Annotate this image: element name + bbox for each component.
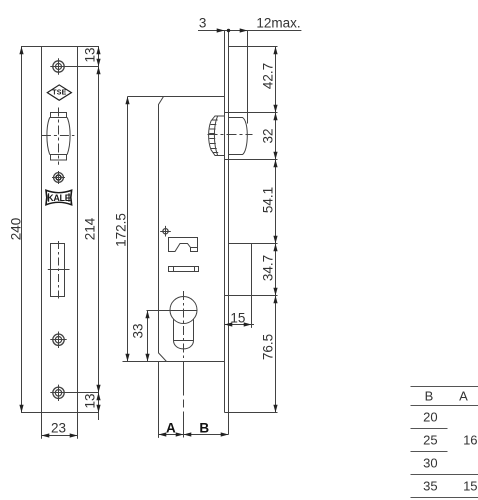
- roller knob inside body: [209, 116, 225, 156]
- table value 20: [423, 410, 437, 425]
- table value 30: [423, 456, 437, 471]
- table header A: [459, 389, 468, 404]
- TSE logo diamond: [47, 85, 71, 100]
- chain extension 243: [229, 243, 278, 245]
- dimension A B line: [159, 434, 229, 436]
- label 15: [230, 311, 245, 326]
- top extension line: [21, 46, 99, 48]
- table header B: [425, 389, 434, 404]
- arrow 3 and dot: [217, 28, 225, 32]
- body top extension: [128, 96, 164, 98]
- arrows right chain: [273, 47, 277, 55]
- label 214: [83, 218, 98, 241]
- KALE text: [47, 193, 70, 203]
- label 240: [9, 218, 24, 241]
- label 33: [131, 323, 146, 338]
- label 23: [51, 421, 66, 436]
- faceplate front view outline: [42, 47, 78, 413]
- right chain dimension line: [275, 47, 277, 413]
- spring plate detail: [169, 267, 199, 272]
- euro cylinder hole: [170, 297, 197, 349]
- KALE logo outline: [46, 190, 72, 204]
- table value 25: [423, 433, 437, 448]
- arrows 13 top and 214 top: [96, 47, 100, 75]
- small screw hole: [52, 171, 65, 184]
- dimension 33 line: [147, 311, 149, 362]
- arrows A B: [159, 432, 229, 436]
- strike box edge: [251, 244, 253, 328]
- lock body outline: [159, 97, 225, 362]
- label 13 bottom: [82, 394, 97, 409]
- cylinder centre extension line: [147, 310, 198, 312]
- dimension 240 line: [21, 47, 23, 413]
- table value 15: [463, 478, 477, 493]
- label 12max: [256, 16, 300, 31]
- label 32: [260, 128, 275, 143]
- table rule lines: [411, 387, 478, 498]
- dimension 172.5 line: [127, 97, 129, 362]
- label 54.1: [260, 186, 275, 212]
- bottom extension line: [21, 412, 99, 414]
- roller horizontal centerline: [208, 134, 253, 136]
- fixing hole lower 1: [50, 332, 66, 349]
- roller cutout vertical centerline: [58, 108, 60, 165]
- arrows 214 bottom and 13 bottom: [96, 385, 100, 413]
- slot centerline: [58, 241, 60, 299]
- fixing hole lower 2: [50, 385, 98, 401]
- chain extension 295: [225, 295, 278, 297]
- chain extension 159: [225, 159, 278, 161]
- arrows 33: [145, 311, 149, 362]
- roller cutout horizontal centerline: [42, 135, 75, 137]
- screw boss cross: [160, 226, 171, 237]
- chain extension 112: [225, 112, 278, 114]
- label 3: [199, 15, 207, 30]
- arrows 23: [42, 433, 78, 437]
- dimension 214 / 13 line: [98, 47, 100, 421]
- extension to roller tip: [247, 31, 249, 124]
- faceplate edge view line outer: [224, 31, 226, 413]
- label 76.5: [260, 334, 275, 360]
- cylinder vertical centerline: [183, 291, 185, 362]
- chain extension bottom 412: [225, 412, 278, 414]
- top dimension line 3 and 12max: [198, 30, 301, 32]
- label 42.7: [260, 63, 275, 89]
- dimension 15 line: [225, 324, 255, 326]
- dimension 23 line: [42, 435, 78, 437]
- dimension 23 extension lines: [42, 413, 78, 439]
- arrow 12max: [240, 28, 248, 32]
- screw hole top: [50, 58, 98, 74]
- arrows 172.5: [125, 97, 129, 362]
- roller bolt protruding: [229, 118, 248, 155]
- faceplate edge view line inner: [228, 31, 230, 435]
- table value 35: [423, 478, 437, 493]
- table value 16: [463, 433, 477, 448]
- body bottom extension: [123, 361, 167, 363]
- roller bolt cutout front view: [47, 113, 70, 161]
- label 172.5: [113, 213, 128, 247]
- arrowheads: [19, 28, 277, 437]
- extension at plate top right: [229, 46, 278, 48]
- arrows 15: [225, 322, 252, 326]
- label B: [199, 420, 209, 435]
- label 13 top: [82, 48, 97, 63]
- latch follower detail: [169, 238, 198, 252]
- TSE text: [52, 89, 66, 96]
- dimension A B extension left: [158, 362, 160, 438]
- label 34.7: [260, 255, 275, 281]
- cylinder slot front view: [48, 244, 70, 297]
- arrows 240: [19, 47, 23, 413]
- label A: [166, 420, 176, 435]
